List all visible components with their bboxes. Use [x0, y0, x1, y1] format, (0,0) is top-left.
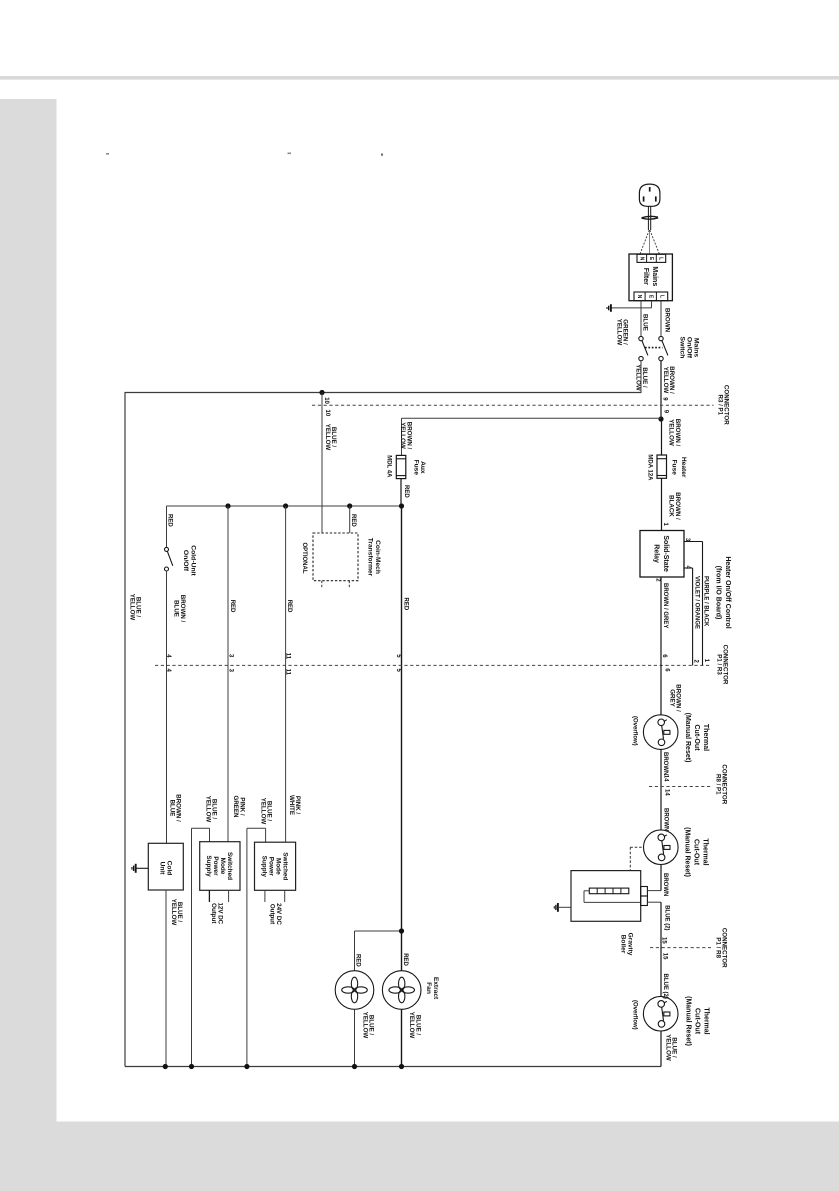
label BLUE / YELLOW below pole1 — [635, 364, 648, 391]
thermal cut-out 2 — [644, 830, 679, 865]
svg-text:BLUE /YELLOW: BLUE /YELLOW — [664, 1034, 677, 1061]
label Coin-Mech Transformer — [366, 538, 380, 577]
label Extract Fan — [425, 977, 439, 1000]
aux fuse — [396, 455, 406, 478]
svg-text:RED: RED — [286, 600, 292, 613]
top toolbar rule — [0, 76, 839, 80]
svg-text:BROWN: BROWN — [664, 308, 671, 333]
heater fuse — [657, 455, 667, 478]
label GREEN / YELLOW — [615, 319, 628, 346]
fan2 wire to bus — [401, 1009, 403, 1066]
connector R3/P1 dashed line — [312, 404, 714, 406]
svg-text:RED: RED — [403, 485, 409, 498]
gravity boiler box — [571, 871, 641, 922]
label CONNECTOR R3/P1 — [716, 385, 729, 425]
svg-text:BLUE /YELLOW: BLUE /YELLOW — [361, 1012, 374, 1039]
wire filter L to switch — [660, 301, 662, 337]
fan1 wire to bus — [354, 1009, 356, 1066]
svg-text:RED: RED — [402, 953, 408, 966]
wire upper terminal to cutout2 — [647, 890, 661, 892]
label BLUE / YELLOW fan1 — [361, 1012, 374, 1039]
switched mode power supply 2 — [255, 842, 296, 890]
svg-text:BROWN / GREY: BROWN / GREY — [662, 583, 668, 628]
label Gravity Boiler — [619, 933, 633, 956]
wire switch to cold unit — [166, 571, 168, 843]
SSR pin 2 wire down — [660, 577, 662, 715]
label Aux Fuse — [412, 460, 426, 476]
junction nodes bottom bus — [163, 1064, 168, 1069]
label 24V DC Output — [269, 903, 282, 925]
svg-text:MDL 4A: MDL 4A — [386, 455, 392, 478]
svg-text:11: 11 — [284, 653, 290, 660]
terminal letters top N E L — [638, 257, 644, 261]
left gray margin — [0, 99, 57, 1191]
label BLUE / YELLOW smps2 — [259, 798, 272, 825]
label Thermal Cut-Out (Manual Reset) 3 — [685, 996, 710, 1046]
svg-text:BLUE /YELLOW: BLUE /YELLOW — [408, 1012, 421, 1039]
mains on/off switch pole 1 — [639, 336, 643, 340]
junction node top bus — [319, 390, 324, 395]
svg-text:BROWN /YELLOW: BROWN /YELLOW — [668, 419, 681, 447]
svg-text:RED: RED — [355, 954, 361, 967]
filter top terminal strip — [637, 254, 666, 262]
wire cold unit to bottom bus — [165, 890, 167, 1067]
svg-text:BROWN /BLACK: BROWN /BLACK — [668, 492, 681, 520]
svg-text:BLUE /YELLOW: BLUE /YELLOW — [129, 594, 142, 621]
label BLUE / YELLOW on drop wire — [324, 424, 337, 451]
svg-text:12V DCOutput: 12V DCOutput — [210, 902, 223, 924]
svg-text:Coin-MechTransformer: Coin-MechTransformer — [366, 538, 380, 577]
connector P1/R3 dashed line — [155, 664, 711, 666]
label BROWN / YELLOW below pole2 — [662, 366, 675, 394]
boiler heating element — [589, 888, 629, 894]
label Cold Unit — [158, 861, 172, 876]
cable fan-out to filter terminals — [649, 230, 651, 254]
svg-text:PINK /GREEN: PINK /GREEN — [232, 795, 245, 818]
svg-text:MainsOn/OffSwitch: MainsOn/OffSwitch — [679, 337, 700, 359]
wire junction to heater fuse — [661, 419, 663, 455]
mains on/off switch pole 2 — [659, 336, 663, 340]
svg-text:BLUE /YELLOW: BLUE /YELLOW — [259, 798, 272, 825]
SSR pin 3 wire — [684, 541, 703, 543]
transformer secondary stubs — [321, 581, 323, 588]
filter bottom terminal strip — [634, 292, 668, 301]
svg-text:BLUE /YELLOW: BLUE /YELLOW — [204, 796, 217, 823]
boiler terminals — [641, 887, 648, 897]
svg-text:BROWN: BROWN — [662, 873, 668, 896]
mains filter box — [629, 254, 672, 301]
label Mains On/Off Switch — [679, 337, 700, 359]
label 12V DC Output — [210, 902, 223, 924]
wire pole2 down through connector R3/P1 — [660, 361, 662, 419]
svg-text:(Overflow): (Overflow) — [632, 716, 638, 746]
cable strain relief marks — [642, 216, 658, 217]
junction nodes on red bus — [225, 503, 230, 508]
wire aux fuse to red bus — [400, 479, 402, 506]
label Heater Fuse — [670, 457, 686, 478]
plug pin live — [655, 196, 657, 201]
wire red bus to transformer right pin — [349, 506, 351, 533]
label BROWN / GREY below connector — [668, 684, 681, 712]
label CONNECTOR P1/R3 — [716, 645, 729, 685]
svg-text:N: N — [638, 257, 644, 261]
label Heater On/Off Control (from I/O Board) — [714, 556, 731, 628]
label Thermal Cut-Out (Manual Reset) 1 — [684, 713, 709, 763]
svg-text:L: L — [659, 295, 665, 298]
mains cable — [647, 206, 649, 230]
svg-text:(Overflow): (Overflow) — [632, 1000, 638, 1030]
svg-text:AuxFuse: AuxFuse — [412, 460, 426, 476]
svg-text:ColdUnit: ColdUnit — [158, 861, 172, 876]
svg-text:RED: RED — [166, 514, 172, 527]
top bus wire — [125, 392, 642, 394]
tiny header text specks — [106, 153, 109, 155]
left bus wire BLUE/YELLOW — [124, 393, 126, 1067]
svg-text:N: N — [636, 295, 642, 299]
svg-text:BLUE /YELLOW: BLUE /YELLOW — [324, 424, 337, 451]
smps2 output stubs — [264, 890, 266, 902]
cold unit box — [148, 843, 183, 890]
SSR pin 4 wire — [684, 567, 693, 569]
wire heater fuse to SSR — [661, 478, 663, 530]
terminal letters bottom N E L — [636, 295, 642, 299]
wire pole1 to top bus — [640, 361, 642, 393]
label Cold-Unit On/Off — [182, 545, 196, 576]
svg-text:RED: RED — [402, 598, 408, 611]
wire filter E to earth — [651, 301, 653, 308]
svg-text:15: 15 — [662, 953, 668, 960]
solid-state relay box U1 — [640, 531, 684, 578]
svg-text:OPTIONAL: OPTIONAL — [301, 543, 307, 574]
label BLUE / YELLOW fan2 — [408, 1012, 421, 1039]
wire cutout2 to boiler terminal — [660, 865, 662, 891]
wire red bus to SMPS1 (pin3) — [227, 506, 229, 842]
label BLUE / YELLOW bottom right — [664, 1034, 677, 1061]
fan branch wire — [355, 930, 402, 932]
label BROWN / BLUE lower — [168, 794, 181, 822]
connector P1/R8 dashed line — [650, 947, 711, 949]
thermal coupling dash-dot to boiler — [630, 846, 643, 848]
svg-text:VIOLET / ORANGE: VIOLET / ORANGE — [693, 576, 699, 629]
svg-text:RED: RED — [350, 514, 356, 527]
smps1 output stubs — [208, 890, 210, 902]
svg-text:BROWN: BROWN — [662, 752, 668, 775]
smps1 blue/yellow riser — [191, 828, 193, 1066]
svg-text:PURPLE / BLACK: PURPLE / BLACK — [703, 576, 709, 627]
label BROWN / BLUE upper — [173, 595, 186, 623]
coin-mech transformer (optional, dashed) — [313, 533, 358, 581]
label BROWN / BLACK — [668, 492, 681, 520]
svg-text:L: L — [657, 257, 663, 260]
wire red bus to SMPS2 (pin11) — [285, 506, 287, 842]
label CONNECTOR P1/R8 — [714, 928, 727, 968]
plug pin neutral — [643, 196, 645, 201]
label BROWN / YELLOW on aux branch — [399, 422, 412, 450]
label BLUE / YELLOW cold unit — [170, 899, 183, 926]
svg-text:24V DCOutput: 24V DCOutput — [269, 903, 282, 925]
mains plug — [639, 184, 660, 206]
cold-unit on/off switch — [165, 547, 169, 551]
thermal cut-out 3 (overflow) — [643, 996, 678, 1031]
svg-text:BLUE: BLUE — [642, 314, 649, 331]
cold unit ground symbol — [135, 864, 137, 873]
svg-text:BROWN /YELLOW: BROWN /YELLOW — [399, 422, 412, 450]
svg-text:MDA 12A: MDA 12A — [647, 454, 653, 481]
label Thermal Cut-Out (Manual Reset) 2 — [684, 827, 709, 877]
svg-text:BROWN: BROWN — [662, 808, 668, 831]
svg-text:RED: RED — [229, 600, 235, 613]
smps2 blue/yellow riser — [246, 828, 248, 1066]
switch mechanical link (dotted) — [645, 347, 663, 349]
wire junction to aux fuse (horizontal) — [402, 417, 662, 419]
red feeder wire to extract fan — [401, 506, 403, 971]
svg-text:14: 14 — [664, 789, 670, 796]
element return lead — [584, 890, 589, 892]
svg-text:10: 10 — [323, 397, 329, 404]
earth ground symbol — [610, 304, 612, 312]
svg-text:GravityBoiler: GravityBoiler — [619, 933, 633, 956]
svg-text:11: 11 — [285, 669, 291, 676]
connector R8/P1 dashed line — [649, 786, 712, 788]
bottom gray margin — [0, 1122, 839, 1191]
svg-text:BLUE (2): BLUE (2) — [662, 974, 668, 999]
extract fan 2 — [382, 971, 421, 1010]
svg-text:PINK /WHITE: PINK /WHITE — [288, 795, 301, 815]
svg-text:BROWN /YELLOW: BROWN /YELLOW — [662, 366, 675, 394]
switched mode power supply 1 — [200, 842, 240, 891]
junction node fan branch — [399, 928, 404, 933]
svg-text:15: 15 — [661, 937, 667, 944]
label CONNECTOR R8/P1 — [715, 764, 728, 804]
wire cutout1 down — [660, 749, 662, 829]
wire filter N to switch — [640, 301, 642, 337]
red bus wire — [167, 505, 402, 507]
boiler ground symbol — [557, 903, 559, 912]
wire red bus to cold-unit switch — [166, 506, 168, 547]
label BROWN / YELLOW right of junction — [668, 419, 681, 447]
svg-text:10: 10 — [324, 410, 330, 417]
svg-text:14: 14 — [663, 775, 669, 782]
svg-text:BLUE /YELLOW: BLUE /YELLOW — [170, 899, 183, 926]
label Mains Filter — [642, 266, 658, 286]
plug pin earth — [649, 187, 651, 192]
junction node brown/yellow — [658, 416, 663, 421]
label PINK / GREEN — [232, 795, 245, 818]
bottom bus wire — [125, 1066, 661, 1068]
wire node to coin-mech transformer — [321, 393, 323, 534]
label Solid-State Relay — [653, 535, 670, 572]
extract fan 1 — [335, 971, 374, 1010]
thermal cut-out 1 (overflow) — [643, 715, 678, 750]
svg-text:BLUE (2): BLUE (2) — [664, 905, 670, 930]
wire lower terminal down — [647, 901, 661, 903]
wire cutout3 to bottom bus — [660, 1031, 662, 1067]
svg-text:GREEN /YELLOW: GREEN /YELLOW — [615, 319, 628, 346]
label BLUE / YELLOW smps1 — [204, 796, 217, 823]
label BLUE / YELLOW on left bus — [129, 594, 142, 621]
label PINK / WHITE — [288, 795, 301, 815]
